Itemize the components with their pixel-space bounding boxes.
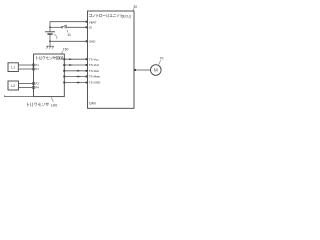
arrowhead on TS-Vref wire [69,64,72,66]
torque sensor circuit block [34,54,65,97]
ignition switch SW1 [61,25,66,28]
svg-text:30: 30 [133,5,137,9]
svg-text:L2: L2 [11,84,15,88]
wire TS-Sub [65,70,86,72]
leader for label 150 [62,51,63,54]
svg-text:L1: L1 [11,66,15,70]
wire GND to ECU [50,40,86,42]
svg-text:11: 11 [67,33,71,37]
svg-text:TS-Main: TS-Main [89,75,101,79]
wire L2 to P4 [19,87,33,89]
node junction IG branch [49,26,51,28]
node junction GND branch [49,40,51,42]
wire TS-Vref [65,64,86,66]
wire ECU to motor [136,69,151,71]
svg-text:100: 100 [51,102,58,107]
wire battery negative down [49,35,51,46]
wire L1 to P1 [18,64,32,66]
arrowhead on TS-Sub wire [77,70,80,72]
ground symbol [46,46,53,48]
battery B1 short plate [47,33,52,35]
pin P1 [33,64,35,66]
coil L2 box [8,81,19,90]
ECU right pin square [134,69,136,71]
wire TS-Vcc [65,58,86,60]
wire battery to VBAT [50,22,86,32]
pin P2 [33,68,35,70]
svg-text:70: 70 [160,57,164,61]
battery B1 plates [45,31,55,33]
wire L1 to P2 [18,68,32,70]
wire TS-GND [65,82,86,84]
motor M circle [151,65,162,76]
torque sensor assembly underline [4,95,33,96]
leader for label 70 [159,60,161,64]
pin P4 [33,87,35,89]
wire battery node to switch [50,26,61,28]
arrowhead on TS-GND wire [77,82,80,84]
svg-text:(ECU): (ECU) [122,14,131,18]
svg-text:150: 150 [63,47,69,51]
ECU block [88,11,135,108]
arrowhead on TS-Main wire [77,76,80,78]
caption torque sensor kana (pseudo-kana strokes) [27,103,49,107]
sensor output pins right edge [63,58,65,83]
svg-text:P4: P4 [35,86,39,90]
svg-text:VBAT: VBAT [89,20,97,24]
wire TS-Main [65,76,86,78]
leader caption to block [51,97,53,102]
svg-text:M: M [154,68,158,73]
svg-text:TS-Vref: TS-Vref [89,63,99,67]
svg-text:GND: GND [89,39,97,43]
arrowhead on TS-Vcc wire [69,58,72,60]
coil L1 box [8,63,18,72]
svg-text:TS-Sub: TS-Sub [89,69,100,73]
wire switch to IG pin [66,26,85,28]
svg-text:TS-GND: TS-GND [89,81,101,85]
label torque sensor circuit header (pseudo-kana strokes) [37,56,63,59]
leader for label 30 [133,8,134,10]
svg-text:P2: P2 [35,67,39,71]
svg-text:TS-Vcc: TS-Vcc [89,57,99,61]
ECU pin squares left edge [86,21,88,84]
pin P3 [33,83,35,85]
label ECU header kana (pseudo-kana strokes) [89,14,123,17]
svg-text:CAN: CAN [89,102,96,106]
leader curl at battery [54,34,57,38]
leader for switch label 11 [67,30,68,33]
wire L2 to P3 [19,83,33,85]
